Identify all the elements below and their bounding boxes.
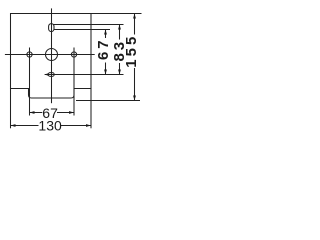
top extension line (155 datum) [91,13,142,15]
arrow right 130 [86,124,91,127]
left hole centerline / extension [29,48,31,116]
dim line 130 [11,125,92,127]
lower slot [48,73,54,77]
svg-text:130: 130 [38,117,62,133]
arrow up 155 [133,14,136,19]
dim line 83 [119,25,121,75]
upper slot [49,24,54,32]
130 extension right [90,89,92,129]
arrow down 83 [118,70,121,75]
130 extension left [10,89,12,129]
arrow up 83 [118,25,121,30]
horizontal centerline [5,54,95,56]
extension line A (slot top, 83 datum) [54,24,124,26]
arrow down 67 [104,70,107,75]
plate outline with bottom tab [11,14,92,99]
vertical centerline [51,8,53,103]
arrow left 130 [11,124,16,127]
dim line 67 bottom [30,112,75,114]
arrow up 67 [104,30,107,35]
arrow left slot leader [45,73,49,76]
155 bottom extension line [76,100,140,102]
extension line B (slot bottom, 67 datum) [54,29,111,31]
text masks [39,35,139,132]
right small hole [71,52,76,57]
dim line 155 [134,14,136,101]
right hole centerline / extension [73,48,75,116]
lower slot leader line [45,74,124,76]
left small hole [27,52,32,57]
svg-text:155: 155 [123,34,140,68]
dim line 67 right [105,30,107,75]
arrow right 67 bottom [69,111,74,114]
svg-text:67: 67 [95,37,112,60]
arrow down 155 [133,96,136,101]
arrow left 67 bottom [30,111,35,114]
big center hole [46,49,58,61]
